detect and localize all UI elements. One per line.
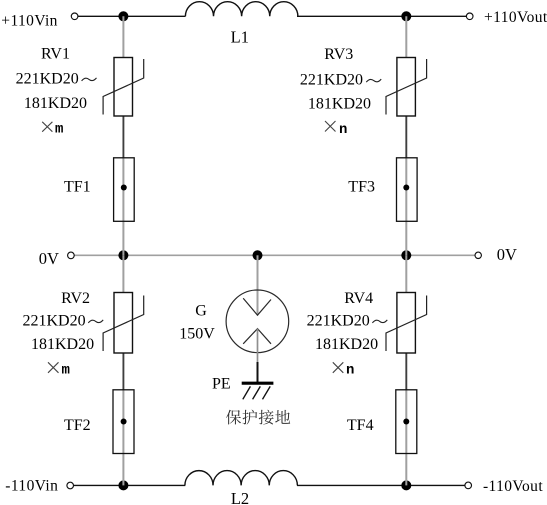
svg-text:221KD20: 221KD20 — [300, 72, 363, 89]
svg-text:PE: PE — [212, 376, 231, 393]
fuse TF3 — [397, 158, 418, 222]
svg-text:221KD20: 221KD20 — [23, 312, 86, 329]
wire bottom rail left segment (-110Vin terminal to L2) — [74, 484, 186, 486]
wire gas tube bottom electrode to ground — [257, 329, 259, 363]
gas discharge tube G circle — [226, 290, 289, 353]
wire middle branch (0V junction down into gas tube) — [257, 255, 259, 315]
svg-text:m: m — [62, 362, 70, 378]
svg-text:L1: L1 — [231, 27, 249, 46]
inductor L2 — [185, 471, 297, 486]
svg-text:+110Vin: +110Vin — [1, 12, 58, 29]
terminal +110Vin — [71, 13, 78, 20]
svg-text:RV1: RV1 — [41, 46, 70, 63]
varistor RV1 — [114, 58, 133, 117]
svg-text:n: n — [339, 122, 347, 138]
node top-left junction — [118, 11, 128, 21]
wire RV1 to TF1 dark segment — [122, 116, 124, 158]
node top-right junction — [401, 11, 411, 21]
terminal -110Vin — [67, 482, 74, 489]
svg-text:181KD20: 181KD20 — [31, 336, 94, 353]
svg-text:m: m — [55, 122, 63, 138]
varistor RV3 — [397, 58, 416, 117]
svg-text:TF1: TF1 — [64, 179, 91, 196]
inductor L1 — [185, 2, 297, 17]
label x m (RV2 quantity) — [48, 362, 59, 373]
svg-text:0V: 0V — [497, 245, 517, 264]
wire RV4 to TF4 dark segment — [405, 353, 407, 390]
wire right branch lower (0V rail to bottom rail, behind RV4/TF4) — [405, 255, 407, 485]
wire top rail right segment (L1 to +110Vout terminal) — [297, 15, 466, 17]
wire RV3 to TF3 dark segment — [405, 116, 407, 158]
varistor RV4 — [397, 293, 416, 354]
svg-text:221KD20: 221KD20 — [307, 312, 370, 329]
svg-text:n: n — [346, 363, 354, 379]
svg-text:-110Vout: -110Vout — [483, 478, 543, 495]
svg-text:G: G — [195, 303, 207, 320]
svg-text:0V: 0V — [39, 249, 59, 268]
terminal 0V right — [475, 252, 481, 258]
terminal 0V left — [68, 252, 75, 259]
node bottom-left junction — [118, 480, 128, 490]
svg-text:-110Vin: -110Vin — [5, 478, 58, 495]
svg-text:150V: 150V — [179, 326, 215, 343]
svg-text:TF2: TF2 — [64, 417, 91, 434]
fuse TF4 — [396, 390, 417, 454]
svg-text:181KD20: 181KD20 — [308, 95, 371, 112]
terminal -110Vout — [465, 482, 472, 489]
gas tube top electrode — [243, 298, 271, 315]
svg-text:RV4: RV4 — [344, 290, 373, 307]
svg-text:+110Vout: +110Vout — [484, 9, 547, 26]
svg-text:RV3: RV3 — [324, 46, 353, 63]
wire top rail left segment (+110Vin terminal to L1) — [78, 15, 186, 17]
svg-text:TF4: TF4 — [347, 417, 374, 434]
node 0V-left junction — [118, 250, 128, 260]
node bottom-right junction — [401, 480, 411, 490]
svg-text:181KD20: 181KD20 — [315, 336, 378, 353]
label x n (RV3 quantity) — [325, 121, 336, 132]
wire RV2 to TF2 dark segment — [122, 353, 124, 390]
wire left branch upper (top rail to 0V rail, behind RV1/TF1) — [122, 16, 124, 255]
label protective earth (Chinese) — [226, 410, 241, 425]
node 0V-right junction — [401, 250, 411, 260]
wire 0V rail — [74, 254, 475, 256]
fuse TF2 — [113, 390, 134, 454]
svg-text:L2: L2 — [231, 489, 249, 505]
fuse TF1 — [114, 158, 135, 222]
label x m (RV1 quantity) — [42, 122, 52, 132]
ground PE symbol — [242, 382, 274, 385]
svg-text:TF3: TF3 — [348, 178, 375, 195]
wire right branch upper (top rail to 0V rail, behind RV3/TF3) — [405, 16, 407, 255]
varistor RV2 — [114, 293, 133, 354]
svg-text:RV2: RV2 — [61, 290, 90, 307]
node 0V-middle junction — [253, 250, 263, 260]
svg-text:181KD20: 181KD20 — [24, 95, 87, 112]
gas tube bottom electrode — [243, 329, 271, 344]
svg-text:221KD20: 221KD20 — [16, 70, 79, 87]
wire left branch lower (0V rail to bottom rail, behind RV2/TF2) — [122, 255, 124, 485]
terminal +110Vout — [466, 13, 473, 20]
label x n (RV4 quantity) — [333, 362, 344, 373]
wire bottom rail right segment (L2 to -110Vout terminal) — [297, 484, 465, 486]
